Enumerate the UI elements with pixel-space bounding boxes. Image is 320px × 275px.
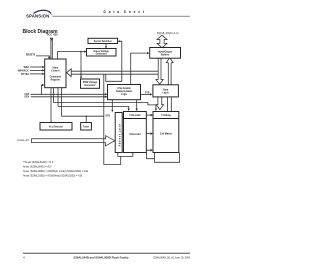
svg-text:Control: Control [51, 69, 60, 72]
wire: long vertical + bottom rail2 [104, 74, 121, 164]
svg-text:Amax (S29AL004D) = A17: Amax (S29AL004D) = A17 [23, 166, 52, 169]
wire: Sector Switches to Erase Voltage Generator connector [105, 44, 107, 49]
svg-text:Sector Switches: Sector Switches [94, 40, 113, 43]
box: Y-Decoder / X-Decoder stack [124, 112, 147, 153]
wire: L2 line to Y-gating top [54, 103, 156, 111]
open arrow: DQ bidirectional at top [157, 35, 167, 48]
svg-text:A​max–A0: A​max–A0 [17, 138, 29, 142]
arrowhead: X-decoder to cell matrix (low) [146, 149, 153, 152]
wire: U loop under cell matrix [155, 153, 180, 163]
svg-text:SPANSION: SPANSION [26, 14, 49, 19]
box: Sector Switches [88, 38, 118, 43]
wire: L3 line to Y-decoder top [58, 106, 129, 110]
arrowhead: CE# into chip enable logic [105, 93, 107, 95]
wire: command bus double line (I/O buffers to State Control) [71, 70, 158, 72]
wire: chip enable logic to I/O buffers (output enable) [131, 53, 149, 84]
arrowhead: X-decoder to cell matrix (mid) [146, 132, 153, 135]
header rule [53, 15, 191, 17]
wire: WP#/ACC [30, 69, 44, 71]
svg-text:BYTE#: BYTE# [21, 73, 29, 76]
arrowhead: CE# branch into State Control [42, 84, 44, 86]
wire: under-path from decoder block to cell matrix U loop [147, 153, 155, 159]
arrowhead: WE# [42, 66, 44, 68]
svg-text:Address Latch: Address Latch [118, 123, 121, 146]
big open arrows [32, 35, 174, 146]
wire: state control drop L3 [57, 88, 59, 107]
arrowhead: VCC/VSS start blobs [50, 38, 53, 41]
svg-text:RESET#: RESET# [26, 54, 36, 57]
svg-text:Generator: Generator [84, 84, 95, 87]
svg-text:Input/Output: Input/Output [158, 50, 172, 53]
junction dot on command bus at x81 [80, 74, 81, 75]
arrowhead: L3 into Y-decoder top [128, 109, 130, 111]
svg-text:Y-Gating: Y-Gating [161, 114, 171, 117]
box: VCC Detector [40, 123, 72, 131]
svg-text:Latch: Latch [162, 92, 169, 95]
wire: address latch to decoder connectors [122, 116, 123, 118]
svg-text:STB: STB [105, 116, 110, 118]
svg-text:Vcc Detector: Vcc Detector [49, 125, 63, 128]
wire: CE# branch up into State Control left [42, 85, 44, 94]
box: Data Latch [153, 85, 179, 97]
junction dot: timer stub [86, 116, 87, 117]
arrowhead: OE# into chip enable logic [105, 96, 107, 98]
svg-text:Chip Enable: Chip Enable [117, 88, 131, 90]
wire: sector switches loop path [106, 41, 122, 81]
arrowhead: WP#/ACC [42, 69, 44, 71]
arrowhead: into I/O buffers left (output enable) [147, 52, 149, 54]
wire: state control drop L2 [53, 88, 55, 103]
svg-text:™: ™ [51, 13, 53, 16]
wire: STB line chip enable to data latch [141, 93, 152, 95]
open arrow: I/O buffers down to data latch [156, 58, 163, 84]
svg-text:State: State [52, 66, 58, 69]
arrowhead: chip enable drop into Y-decoder top [136, 109, 138, 111]
svg-text:S29AL004D and S29AL008D Flash: S29AL004D and S29AL008D Flash Family [73, 255, 128, 259]
svg-text:Data: Data [163, 89, 169, 92]
wire: RESET# to State Control top [36, 56, 49, 59]
svg-text:D a t a S h e e t: D a t a S h e e t [104, 10, 145, 14]
open arrow: read path up to I/O buffers [166, 57, 173, 62]
junction dot at erase/pgm branch [80, 51, 82, 53]
footer rule [23, 252, 190, 254]
svg-text:DQ15–DQ0 (A-1): DQ15–DQ0 (A-1) [157, 31, 179, 35]
arrowhead: STB into address latch top [111, 110, 113, 112]
wire: read lines data latch to Y-gating [167, 97, 169, 112]
arrowhead: BYTE# [42, 73, 44, 75]
svg-text:OE#: OE# [24, 96, 29, 99]
arrowhead: connector into Erase Voltage Generator top [105, 46, 107, 48]
svg-text:Amax (S29AL016D) = A19/(Word): Amax (S29AL016D) = A19/(Word) (S29AL016D… [23, 175, 83, 178]
box: Input/Output Buffers [150, 48, 181, 59]
box: Address Latch (vertical) [115, 113, 122, 153]
arrowhead: into Erase Voltage Generator [84, 51, 86, 53]
Spansion logo wordmark [26, 13, 53, 18]
box: Y-Gating / Cell Matrix stack [153, 112, 179, 153]
open arrow: command bus head into State Control [67, 69, 72, 77]
wire: BYTE# [30, 73, 44, 75]
svg-text:S29AL004D_00_A1 June 16, 2004: S29AL004D_00_A1 June 16, 2004 [153, 256, 191, 259]
svg-text:STB: STB [145, 92, 150, 94]
svg-text:Logic: Logic [121, 94, 128, 96]
junction dot: rail1 at x-decoder bottom [132, 152, 133, 153]
wire: CE# line [31, 93, 107, 95]
svg-text:Generator: Generator [96, 53, 107, 56]
svg-text:Output Enable: Output Enable [116, 90, 133, 93]
Spansion logo swoosh [34, 10, 52, 13]
box: Erase Voltage Generator [87, 49, 117, 57]
arrowhead: L2 into Y-gating top [155, 109, 157, 111]
arrowhead: sector loop into Sector Switches right edge [118, 40, 120, 42]
svg-text:Erase Voltage: Erase Voltage [94, 50, 110, 53]
box: State Control Command Register [45, 59, 66, 88]
svg-text:Register: Register [51, 78, 60, 81]
box: Chip Enable Output Enable Logic [108, 85, 141, 100]
wire: state control drop to VCC detector [50, 88, 52, 123]
wire: OE# line [31, 96, 107, 98]
arrowhead: Y-decoder to Y-gating (header) [146, 114, 153, 117]
svg-text:**Amax (S29AL016D) = N.C.: **Amax (S29AL016D) = N.C. [23, 161, 55, 164]
open arrow: address bus into address latch [32, 136, 115, 146]
svg-text:X-Decoder: X-Decoder [129, 134, 141, 136]
svg-text:Y-Decoder: Y-Decoder [129, 115, 141, 117]
svg-text:Buffers: Buffers [161, 54, 170, 56]
svg-text:Cell Matrix: Cell Matrix [160, 132, 172, 135]
box: PGM Voltage Generator [81, 79, 100, 88]
wire: WE# [30, 66, 44, 68]
arrowheads (filled) [42, 38, 157, 153]
svg-text:Command: Command [50, 76, 62, 78]
svg-text:Timer: Timer [83, 126, 89, 128]
wire: timer stub [85, 116, 87, 122]
wire: State Control to Erase Voltage Generator [57, 52, 86, 59]
wire: branch down to PGM Voltage Generator [80, 52, 82, 79]
wire: read lines I/O buffers region [167, 63, 169, 85]
wire: bottom rail1 with stubs [118, 153, 133, 157]
arrowhead: RESET# into box top [48, 57, 51, 59]
box: Timer [81, 123, 92, 131]
wire: L4 line to timer and long vertical [62, 115, 104, 117]
wire: VCC/VSS pair into State Control top [50, 38, 52, 60]
svg-text:Amax (S29AL008D) = A18/(Byte m: Amax (S29AL008D) = A18/(Byte mode) (S29A… [23, 170, 89, 173]
wire: STB drop from chip enable logic to address latch [111, 100, 113, 110]
open arrow: data latch down to Y-gating [156, 97, 163, 110]
svg-text:PGM Voltage: PGM Voltage [83, 81, 98, 84]
arrowhead: into PGM Voltage Generator top [80, 77, 82, 79]
wire: chip enable drop to Y-decoder top [136, 100, 138, 111]
arrowhead: STB into data latch [150, 93, 152, 95]
svg-text:V​CC V​SS: V​CC V​SS [47, 35, 58, 37]
wire: state control drop L4 [61, 88, 63, 117]
